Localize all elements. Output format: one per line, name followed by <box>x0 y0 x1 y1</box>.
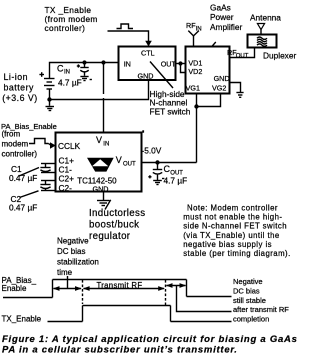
svg-text:Negative: Negative <box>233 277 263 286</box>
RF_IN antenna feed <box>188 31 199 47</box>
svg-text:time: time <box>57 268 73 277</box>
svg-text:DC bias: DC bias <box>57 247 85 256</box>
svg-text:completion: completion <box>233 315 269 324</box>
pin VOUT label <box>116 155 136 168</box>
svg-text:boost/buck: boost/buck <box>89 220 139 231</box>
wire VG2 down <box>197 94 221 107</box>
svg-text:V: V <box>96 135 102 145</box>
svg-text:VG2: VG2 <box>212 83 226 92</box>
capacitor CIN <box>80 63 88 76</box>
svg-text:IN: IN <box>103 142 109 148</box>
TX_Enable high level <box>83 305 171 307</box>
svg-text:V: V <box>116 155 122 165</box>
wire battery minus to ground rail <box>49 89 51 106</box>
svg-text:GND: GND <box>138 71 154 80</box>
PA_Bias rising edge <box>52 280 54 298</box>
antenna symbol <box>257 24 264 35</box>
ground symbol (battery) <box>46 107 55 111</box>
GaAs Power Amplifier label <box>210 2 243 32</box>
stray dot <box>142 130 144 132</box>
leader to after transmit RF text <box>177 286 232 312</box>
Negative DC bias stabilization time label <box>57 237 99 278</box>
pin VIN label <box>96 135 109 148</box>
COUT plus sign <box>148 175 151 178</box>
svg-text:Note: Modem controller: Note: Modem controller <box>187 204 278 213</box>
leader line C2 <box>20 191 39 198</box>
PA_Bias_Enable pulse symbol <box>29 139 49 144</box>
svg-text:must not enable the high-: must not enable the high- <box>183 213 282 222</box>
wire VIN rail battery to IN pin <box>50 63 119 79</box>
dashed line TX fall <box>165 280 167 307</box>
high-side FET switch U1 <box>119 47 176 81</box>
Inductorless boost/buck regulator label <box>89 208 145 242</box>
PA_Bias low level <box>3 297 53 299</box>
TX_Enable label <box>45 5 98 33</box>
still stable arrows <box>166 283 186 288</box>
capacitor CIN label <box>57 64 82 88</box>
svg-text:4.7 µF: 4.7 µF <box>164 176 188 186</box>
svg-text:CCLK: CCLK <box>58 141 81 151</box>
svg-text:C: C <box>57 64 64 74</box>
leader line time to arrows <box>67 276 69 289</box>
TX_Enable low level <box>48 321 83 323</box>
svg-text:OUT: OUT <box>123 162 136 168</box>
svg-text:CTL: CTL <box>141 48 155 57</box>
svg-text:(via TX_Enable) until the: (via TX_Enable) until the <box>183 231 280 240</box>
wire VIN drop to TC1142 (with crossover gap) <box>103 63 105 95</box>
svg-text:still stable: still stable <box>233 296 266 305</box>
COUT minus sign <box>162 178 164 180</box>
svg-text:0.47 µF: 0.47 µF <box>9 203 37 213</box>
wire TC1142 GND to ground <box>103 192 105 201</box>
RF_OUT label <box>227 48 249 60</box>
svg-text:modem: modem <box>2 139 29 148</box>
Transmit RF arrows <box>83 286 165 291</box>
Negative DC bias still stable annotation <box>233 277 289 324</box>
ground symbol (COUT) <box>153 181 162 185</box>
dashed line TX rise <box>82 280 84 304</box>
ground symbol (PA) <box>236 93 243 98</box>
leader line to High-side label <box>150 62 173 89</box>
Li-ion battery label <box>2 72 38 103</box>
svg-text:battery: battery <box>4 83 34 93</box>
battery BT1 plus sign <box>39 72 44 77</box>
svg-text:C2+: C2+ <box>59 173 75 183</box>
svg-text:stable (per timing diagram).: stable (per timing diagram). <box>183 249 291 258</box>
svg-text:FET switch: FET switch <box>150 106 191 116</box>
junction battery/ground rail <box>47 97 51 101</box>
junction VIN drop tap <box>101 60 105 64</box>
CIN plus sign <box>77 64 80 67</box>
PA_Bias_Enable signal label <box>2 276 37 293</box>
svg-text:Negative: Negative <box>57 237 89 246</box>
svg-text:IN: IN <box>124 59 131 68</box>
TX_Enable rising edge <box>82 306 84 322</box>
wire RF_OUT to duplexer <box>230 48 255 58</box>
leader line Inductorless label <box>105 200 111 210</box>
svg-text:-5.0V: -5.0V <box>142 146 162 156</box>
arrowhead into CCLK pin <box>50 142 56 149</box>
duplexer wave symbols <box>257 37 267 46</box>
svg-text:4.7 µF: 4.7 µF <box>58 78 82 88</box>
svg-text:GaAs: GaAs <box>210 2 231 12</box>
leader line C1 <box>19 168 39 177</box>
svg-text:Enable: Enable <box>2 284 27 293</box>
wire pulse to CCLK <box>49 144 51 146</box>
GaAs power amplifier U2 <box>186 47 230 94</box>
Note text block <box>183 204 291 259</box>
capacitor COUT label <box>164 164 188 186</box>
svg-text:TX_Enable: TX_Enable <box>2 315 42 324</box>
svg-text:VG1: VG1 <box>186 83 200 92</box>
ground symbol (TC1142) <box>97 201 110 206</box>
svg-text:negative bias supply is: negative bias supply is <box>183 240 272 249</box>
junction OUT/VD <box>178 61 182 65</box>
duplexer filter box <box>248 35 277 48</box>
svg-text:(from: (from <box>2 129 21 138</box>
svg-text:Inductorless: Inductorless <box>89 208 145 219</box>
battery BT1 plates <box>44 79 55 90</box>
svg-text:GND: GND <box>93 184 109 193</box>
svg-text:OUT: OUT <box>236 54 249 60</box>
junction VG <box>194 104 198 108</box>
svg-text:after transmit RF: after transmit RF <box>233 305 289 314</box>
leader line Amplifier label to PA box <box>212 42 216 46</box>
svg-text:side N-channel FET switch: side N-channel FET switch <box>183 222 287 231</box>
wire TX_Enable to CTL <box>108 31 149 42</box>
svg-text:PA in a cellular subscriber un: PA in a cellular subscriber unit’s trans… <box>2 344 238 355</box>
svg-text:Antenna: Antenna <box>250 12 281 22</box>
ground rail wire to FET GND <box>50 80 149 100</box>
svg-text:Amplifier: Amplifier <box>210 22 243 32</box>
wire VG1 down <box>196 94 198 163</box>
svg-text:regulator: regulator <box>89 231 131 242</box>
TX_Enable falling edge <box>170 306 172 322</box>
svg-text:IN: IN <box>64 70 70 76</box>
capacitor C1 <box>40 164 55 173</box>
svg-text:stabilization: stabilization <box>57 258 99 267</box>
RF_IN label <box>186 21 202 33</box>
svg-text:C2-: C2- <box>59 183 73 193</box>
wire OUT to VD1 <box>176 63 186 65</box>
wire to VD2 <box>181 64 186 73</box>
svg-text:OUT: OUT <box>161 59 177 68</box>
TC1142-50 regulator U3 <box>56 133 142 192</box>
svg-text:VD2: VD2 <box>188 67 202 76</box>
svg-text:GND: GND <box>214 74 230 83</box>
CIN minus sign <box>90 79 92 81</box>
capacitor COUT <box>153 163 162 181</box>
capacitor C2 <box>40 181 55 191</box>
High-side N-channel FET switch label <box>150 89 191 116</box>
svg-text:(+3.6 V): (+3.6 V) <box>2 93 38 103</box>
wire VOUT <box>142 162 197 164</box>
PA_Bias_Enable label <box>1 122 57 159</box>
svg-text:DC bias: DC bias <box>233 286 260 295</box>
svg-text:controller): controller) <box>2 150 38 159</box>
svg-text:Li-ion: Li-ion <box>4 72 29 82</box>
PA_Bias falling edge <box>186 280 188 297</box>
leader to completion text <box>171 321 232 323</box>
TX_Enable pulse symbol <box>117 24 134 29</box>
svg-text:Power: Power <box>210 12 234 22</box>
junction CIN tap <box>82 60 86 64</box>
svg-text:Duplexer: Duplexer <box>263 50 296 60</box>
wire PA GND to ground <box>230 83 241 93</box>
svg-text:controller): controller) <box>45 23 86 33</box>
svg-text:Transmit RF: Transmit RF <box>97 281 143 290</box>
Microchip logo <box>87 158 114 172</box>
stabilization time arrows <box>53 286 82 291</box>
arrowhead into CTL pin <box>145 41 152 47</box>
svg-text:0.47 µF: 0.47 µF <box>9 173 37 183</box>
ground symbol (CIN) <box>80 77 88 81</box>
junction VOUT/COUT <box>155 160 159 164</box>
PA_Bias high level <box>53 279 187 281</box>
leader to DC bias text <box>187 296 232 298</box>
figure caption <box>2 334 298 355</box>
